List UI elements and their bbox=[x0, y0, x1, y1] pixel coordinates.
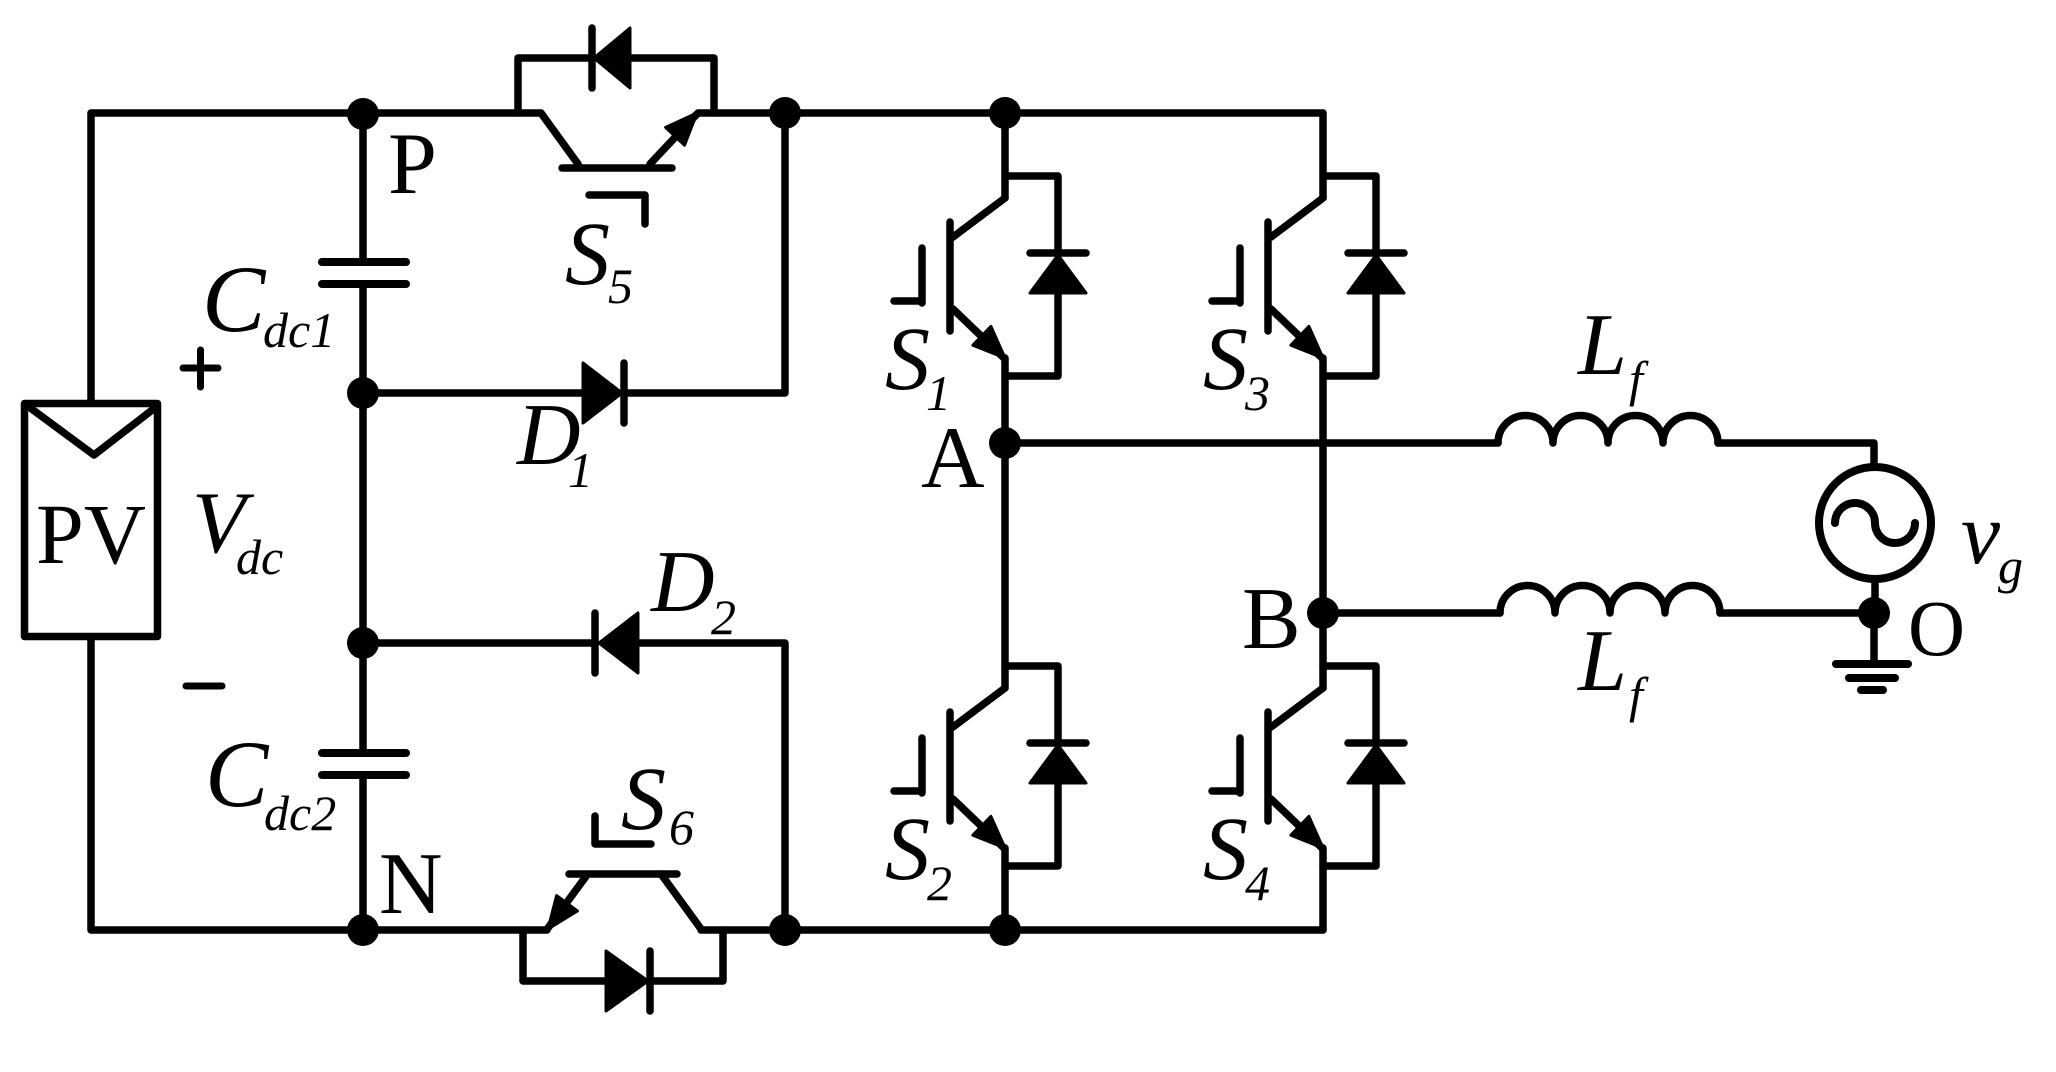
svg-text:O: O bbox=[1908, 586, 1965, 673]
svg-text:L: L bbox=[1576, 613, 1627, 710]
junction bottom rail at S2 leg bbox=[989, 914, 1021, 946]
svg-text:D: D bbox=[650, 534, 715, 631]
svg-text:dc2: dc2 bbox=[264, 785, 336, 841]
wire PV positive terminal up and right to node P (top rail left) bbox=[91, 113, 540, 400]
svg-text:S: S bbox=[1203, 310, 1248, 409]
wire diode D1 cathode right and up to top rail node bbox=[624, 113, 785, 393]
svg-text:S: S bbox=[621, 750, 666, 849]
node B bbox=[1307, 597, 1339, 629]
wire IGBT S1 emitter to node A bbox=[1001, 358, 1009, 443]
IGBT S4 bbox=[1271, 688, 1323, 727]
svg-text:S: S bbox=[1203, 800, 1248, 899]
node M2 junction bbox=[347, 627, 379, 659]
plus sign bbox=[183, 350, 218, 387]
svg-text:2: 2 bbox=[711, 589, 736, 645]
wire top rail from S5 emitter to S3 leg corner bbox=[698, 109, 1323, 117]
wire bottom rail from S6 collector to S4 leg corner bbox=[701, 926, 1323, 934]
svg-text:dc: dc bbox=[236, 529, 283, 585]
diode D2 bbox=[591, 613, 599, 673]
IGBT S3 bbox=[1271, 198, 1323, 237]
wire IGBT S3 emitter down to node B bbox=[1319, 358, 1327, 613]
IGBT S6 bbox=[548, 875, 587, 928]
svg-text:S: S bbox=[885, 800, 930, 899]
S2 antiparallel diode bbox=[1005, 666, 1058, 866]
svg-text:C: C bbox=[202, 246, 267, 352]
wire top rail node to IGBT S1 collector bbox=[1001, 113, 1009, 198]
svg-text:6: 6 bbox=[669, 799, 694, 855]
wire node M2 to diode D2 cathode bbox=[363, 639, 595, 647]
wire S6 diode loop right bbox=[650, 930, 723, 981]
svg-text:C: C bbox=[205, 721, 270, 827]
node N bbox=[347, 914, 379, 946]
svg-text:g: g bbox=[1998, 538, 2023, 594]
svg-text:S: S bbox=[885, 310, 930, 409]
minus sign bbox=[186, 683, 222, 690]
svg-text:S: S bbox=[565, 205, 610, 304]
S1 antiparallel diode bbox=[1005, 176, 1058, 376]
svg-text:N: N bbox=[379, 836, 443, 933]
ground at node O bbox=[1870, 613, 1878, 664]
S5 antiparallel diode bbox=[588, 28, 596, 88]
wire capacitor Cdc2 bottom to node N bbox=[359, 775, 367, 930]
svg-text:f: f bbox=[1629, 667, 1649, 723]
inductor Lf top bbox=[1498, 416, 1718, 444]
diode D1 bbox=[583, 363, 622, 423]
svg-text:PV: PV bbox=[36, 486, 146, 582]
svg-text:P: P bbox=[388, 116, 437, 213]
wire top rail corner to IGBT S3 collector bbox=[1319, 113, 1327, 198]
node M1 junction bbox=[347, 377, 379, 409]
junction top rail at D1 branch bbox=[769, 97, 801, 129]
node O bbox=[1858, 597, 1890, 629]
wire voltage source vg to node O bbox=[1871, 579, 1879, 613]
wire IGBT S2 emitter to bottom rail node bbox=[1001, 848, 1009, 930]
wire node A to IGBT S2 collector bbox=[1001, 443, 1009, 688]
wire PV negative terminal down and right to node N bbox=[91, 640, 547, 930]
wire inductor Lf bottom to node O bbox=[1720, 609, 1874, 617]
capacitor Cdc2 bbox=[322, 749, 406, 757]
wire diode D2 anode right and down to bottom rail node bbox=[638, 643, 785, 930]
svg-text:f: f bbox=[1629, 351, 1649, 407]
wire node B to filter inductor Lf bottom bbox=[1323, 609, 1500, 617]
wire inductor Lf top to voltage source vg bbox=[1718, 443, 1874, 467]
svg-text:3: 3 bbox=[1244, 365, 1270, 421]
wire IGBT S4 emitter to bottom rail corner bbox=[1319, 848, 1327, 930]
svg-text:4: 4 bbox=[1245, 855, 1270, 911]
capacitor Cdc1 bbox=[322, 258, 406, 266]
wire node A to filter inductor Lf top bbox=[1005, 439, 1498, 447]
IGBT S5 bbox=[541, 113, 578, 164]
S4 antiparallel diode bbox=[1323, 666, 1376, 866]
wire S5 diode loop right bbox=[630, 58, 714, 113]
wire node B to IGBT S4 collector bbox=[1319, 613, 1327, 688]
svg-text:L: L bbox=[1576, 297, 1627, 394]
wire node M1 to diode D1 anode bbox=[363, 389, 583, 397]
wire capacitor Cdc1 bottom through node M1 and node M2 to capacitor Cdc2 bbox=[359, 284, 367, 753]
svg-text:A: A bbox=[921, 410, 985, 507]
inductor Lf bottom bbox=[1500, 586, 1720, 614]
svg-text:dc1: dc1 bbox=[263, 302, 335, 358]
wire S5 diode loop left bbox=[518, 58, 592, 113]
svg-text:B: B bbox=[1242, 571, 1301, 668]
PV panel bbox=[25, 404, 158, 637]
node P bbox=[347, 98, 379, 130]
S3 antiparallel diode bbox=[1323, 176, 1376, 376]
svg-text:5: 5 bbox=[608, 258, 633, 314]
svg-text:v: v bbox=[1961, 486, 2001, 583]
IGBT S2 bbox=[953, 688, 1005, 727]
junction bottom rail at D2 branch bbox=[769, 914, 801, 946]
junction top rail at S1 leg bbox=[989, 97, 1021, 129]
S6 antiparallel diode bbox=[646, 951, 654, 1011]
voltage source vg bbox=[1819, 467, 1931, 579]
IGBT S1 bbox=[953, 198, 1005, 237]
wire node P down to capacitor Cdc1 bbox=[359, 113, 367, 262]
wire S6 diode loop left bbox=[523, 930, 606, 981]
node A bbox=[989, 427, 1021, 459]
svg-text:1: 1 bbox=[568, 442, 593, 498]
svg-text:2: 2 bbox=[927, 855, 952, 911]
